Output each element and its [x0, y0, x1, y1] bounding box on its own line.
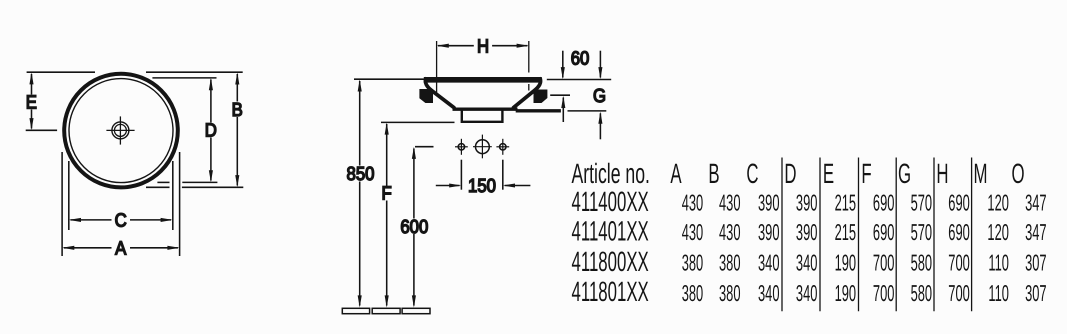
svg-text:H: H — [477, 36, 489, 57]
bottom extension line (inner tangent) — [157, 181, 217, 183]
bowl bottom — [453, 107, 518, 110]
table row 4 — [572, 276, 1047, 307]
svg-text:347: 347 — [1025, 219, 1046, 245]
svg-text:430: 430 — [682, 189, 703, 215]
svg-text:G: G — [593, 86, 606, 107]
svg-text:340: 340 — [758, 280, 779, 306]
svg-text:A: A — [115, 238, 126, 259]
bowl left slant — [425, 79, 454, 108]
counter edge thick bar — [516, 109, 561, 112]
table row 3 — [572, 246, 1047, 277]
svg-text:690: 690 — [873, 189, 894, 215]
svg-text:347: 347 — [1025, 189, 1046, 215]
svg-text:G: G — [898, 158, 911, 189]
svg-text:380: 380 — [682, 280, 703, 306]
table header — [572, 158, 1025, 189]
svg-text:390: 390 — [796, 189, 817, 215]
basin rim (side view) — [424, 77, 542, 83]
svg-text:O: O — [1011, 158, 1024, 189]
counter line right — [547, 79, 611, 81]
svg-text:690: 690 — [873, 219, 894, 245]
G dimension bottom arrow — [568, 111, 607, 139]
svg-text:380: 380 — [682, 250, 703, 276]
tap hole center mark — [106, 116, 134, 144]
svg-text:307: 307 — [1025, 250, 1046, 276]
H extension line right — [528, 41, 530, 73]
table row 2 — [572, 216, 1047, 247]
svg-text:340: 340 — [796, 280, 817, 306]
svg-text:307: 307 — [1025, 280, 1046, 306]
H extension line left — [436, 41, 438, 93]
clamp left — [419, 89, 433, 103]
svg-text:110: 110 — [988, 280, 1009, 306]
svg-text:430: 430 — [719, 189, 740, 215]
svg-text:A: A — [670, 158, 681, 189]
svg-text:340: 340 — [758, 250, 779, 276]
dimension A — [62, 246, 180, 250]
svg-text:700: 700 — [948, 250, 969, 276]
dimension 600 — [412, 147, 416, 308]
dimension C — [69, 218, 173, 222]
drain box — [462, 111, 503, 122]
table separators — [782, 158, 972, 312]
floor hatch rect 1 — [342, 308, 369, 313]
svg-text:390: 390 — [758, 189, 779, 215]
svg-text:700: 700 — [873, 280, 894, 306]
tap hole middle (side view) — [473, 135, 492, 159]
svg-text:690: 690 — [948, 189, 969, 215]
dimension B — [235, 72, 239, 187]
dimension H — [437, 44, 529, 48]
svg-text:411401XX: 411401XX — [572, 216, 649, 247]
extension verticals A — [62, 152, 180, 256]
svg-text:H: H — [936, 158, 948, 189]
svg-text:690: 690 — [948, 219, 969, 245]
svg-text:600: 600 — [400, 217, 428, 238]
svg-text:340: 340 — [796, 250, 817, 276]
svg-text:190: 190 — [835, 280, 856, 306]
svg-text:215: 215 — [835, 189, 856, 215]
svg-text:B: B — [708, 158, 719, 189]
dimension D — [209, 78, 213, 182]
svg-text:F: F — [861, 158, 871, 189]
svg-text:E: E — [823, 158, 834, 189]
svg-text:580: 580 — [911, 280, 932, 306]
svg-text:850: 850 — [347, 164, 375, 185]
svg-text:Article no.: Article no. — [572, 158, 650, 189]
600 extension line — [415, 146, 434, 148]
svg-text:570: 570 — [911, 189, 932, 215]
clamp right — [534, 90, 548, 104]
svg-text:120: 120 — [987, 219, 1008, 245]
dimension 60 — [561, 51, 603, 80]
svg-text:390: 390 — [796, 219, 817, 245]
svg-text:215: 215 — [835, 219, 856, 245]
svg-text:D: D — [784, 158, 796, 189]
dimension F — [385, 122, 389, 307]
tap hole left (side view) — [455, 139, 468, 155]
inner-top extension line — [152, 77, 216, 79]
svg-text:390: 390 — [758, 219, 779, 245]
svg-text:411400XX: 411400XX — [572, 186, 649, 217]
svg-text:120: 120 — [987, 189, 1008, 215]
tap hole right (side view) — [496, 139, 509, 155]
svg-text:C: C — [746, 158, 758, 189]
svg-text:D: D — [205, 121, 217, 142]
svg-text:F: F — [381, 184, 391, 205]
svg-text:110: 110 — [988, 250, 1009, 276]
svg-text:C: C — [115, 211, 127, 232]
counter line left — [354, 78, 424, 80]
table row 1 — [572, 186, 1047, 217]
svg-text:700: 700 — [873, 250, 894, 276]
svg-text:150: 150 — [468, 176, 496, 197]
dimension E — [29, 72, 33, 130]
extension verticals C — [69, 161, 173, 230]
floor hatch rect 2 — [372, 308, 400, 313]
svg-text:380: 380 — [719, 250, 740, 276]
dimension 850 — [358, 79, 362, 307]
svg-text:411800XX: 411800XX — [572, 246, 649, 277]
svg-text:430: 430 — [682, 219, 703, 245]
svg-text:B: B — [232, 100, 243, 121]
svg-text:411801XX: 411801XX — [572, 276, 649, 307]
floor hatch rect 3 — [402, 308, 430, 313]
top tangent extension line right — [146, 71, 243, 73]
center extension line (E bottom) — [26, 129, 57, 131]
150 extension verticals — [461, 160, 502, 190]
top tangent extension line left — [27, 71, 95, 73]
svg-text:430: 430 — [719, 219, 740, 245]
svg-text:190: 190 — [835, 250, 856, 276]
svg-text:60: 60 — [571, 48, 590, 69]
60 bottom arrow pair — [550, 95, 570, 122]
bowl right slant — [514, 79, 541, 108]
svg-text:E: E — [26, 92, 37, 113]
inner circle (basin bowl, top view) — [69, 79, 173, 183]
svg-text:700: 700 — [948, 280, 969, 306]
dimension 150 — [436, 183, 531, 187]
bottom extension line (outer tangent) — [146, 186, 243, 188]
svg-text:570: 570 — [911, 219, 932, 245]
svg-text:380: 380 — [719, 280, 740, 306]
svg-text:M: M — [974, 158, 988, 189]
outer circle (basin rim, top view) — [64, 74, 178, 188]
F extension line — [381, 121, 455, 123]
svg-text:580: 580 — [911, 250, 932, 276]
